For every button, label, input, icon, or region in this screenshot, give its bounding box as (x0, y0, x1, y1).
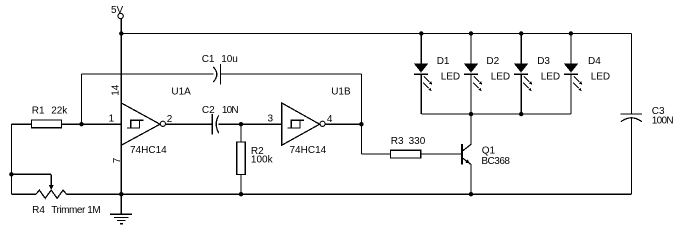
wire top 5V rail (121, 33, 631, 35)
wire C1 right (221, 73, 362, 75)
svg-text:LED: LED (441, 72, 460, 83)
svg-text:22k: 22k (51, 106, 68, 117)
capacitor C2 10N (202, 105, 239, 134)
wire R3 left (361, 153, 390, 155)
svg-text:LED: LED (591, 72, 610, 83)
wire R1 left (11, 123, 31, 125)
svg-text:74HC14: 74HC14 (130, 145, 167, 156)
svg-text:330: 330 (409, 136, 426, 147)
junction ground symbol (119, 192, 123, 196)
wire C1 feedback riser (360, 74, 362, 124)
svg-text:C2: C2 (202, 105, 215, 116)
wire ground rail (67, 193, 632, 195)
svg-text:D4: D4 (588, 56, 601, 67)
wire power line down to gate (120, 34, 122, 104)
wire C2 to pin3 (219, 123, 282, 125)
capacitor C1 10u (202, 54, 238, 84)
svg-text:R4: R4 (32, 205, 45, 216)
wire R1 to pin1 (62, 123, 122, 125)
transistor Q1 BC368 (462, 144, 510, 167)
junction rail-D2 (469, 31, 473, 35)
wire emitter down (470, 164, 472, 194)
svg-text:D3: D3 (537, 56, 550, 67)
wire 5V stub (120, 19, 122, 34)
inverter U1B 74HC14 (282, 87, 351, 157)
trimmer R4 1M (11, 174, 100, 216)
junction cathode bus collector (469, 112, 473, 116)
wire C1 riser (81, 74, 83, 124)
svg-text:U1B: U1B (331, 87, 351, 98)
svg-text:LED: LED (491, 72, 510, 83)
wire R2 top (240, 124, 242, 142)
inverter U1A 74HC14 (121, 87, 191, 157)
svg-text:10u: 10u (221, 54, 238, 65)
wire ground rail left of trimmer (11, 193, 36, 195)
power terminal 5V (111, 5, 124, 19)
wire LED cathode bus (421, 113, 571, 115)
ground (110, 194, 132, 224)
svg-text:3: 3 (268, 113, 274, 124)
wire R2 bottom (240, 174, 242, 194)
resistor R3 330 (391, 136, 426, 158)
svg-text:100k: 100k (251, 155, 274, 166)
junction pin1 node (79, 122, 83, 126)
svg-text:1: 1 (109, 113, 115, 124)
svg-text:100N: 100N (652, 116, 674, 127)
junction cathode bus D3 (519, 112, 523, 116)
svg-text:C1: C1 (202, 54, 215, 65)
wire R3 to base (421, 153, 462, 155)
LED D4 (564, 34, 610, 115)
wire pin4 down (360, 124, 362, 154)
svg-text:5V: 5V (111, 5, 124, 16)
junction pin4 node (359, 122, 363, 126)
svg-text:D2: D2 (486, 56, 499, 67)
wire R1 left column (10, 124, 12, 194)
junction rail-D3 (519, 31, 523, 35)
wire pin2 to C2 (166, 123, 213, 125)
svg-text:Trimmer 1M: Trimmer 1M (51, 205, 100, 216)
junction R2 ground (239, 192, 243, 196)
wire C1 left (82, 73, 214, 75)
resistor R1 22k (31, 106, 68, 128)
resistor R2 100k (237, 142, 274, 174)
svg-text:10N: 10N (222, 105, 239, 116)
svg-text:4: 4 (327, 114, 333, 125)
svg-text:BC368: BC368 (481, 156, 510, 167)
svg-text:U1A: U1A (171, 87, 191, 98)
svg-text:14: 14 (111, 84, 122, 96)
wire gate to ground rail (120, 145, 122, 194)
capacitor C3 100N (621, 106, 674, 127)
svg-text:74HC14: 74HC14 (290, 145, 327, 156)
svg-text:LED: LED (541, 72, 560, 83)
wire C3 bottom (631, 118, 633, 194)
junction emitter ground (469, 192, 473, 196)
junction rail-D1 (419, 31, 423, 35)
junction trimmer tap (9, 172, 13, 176)
svg-text:R3: R3 (391, 136, 404, 147)
junction pin3 node (239, 122, 243, 126)
wire collector riser (470, 114, 472, 144)
svg-text:Q1: Q1 (482, 146, 496, 157)
LED D2 (464, 34, 510, 115)
junction rail-D4 (569, 31, 573, 35)
LED D1 (414, 34, 460, 115)
svg-text:7: 7 (112, 157, 123, 163)
wire C3 top (631, 34, 633, 115)
LED D3 (514, 34, 560, 115)
svg-text:R1: R1 (32, 106, 45, 117)
svg-text:2: 2 (167, 114, 173, 125)
svg-text:D1: D1 (437, 56, 450, 67)
junction rail-left (119, 31, 123, 35)
wire pin4 (325, 123, 361, 125)
